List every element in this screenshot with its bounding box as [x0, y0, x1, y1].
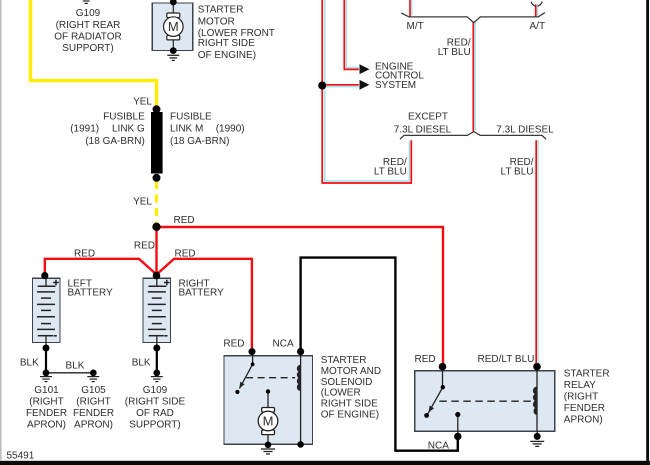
svg-text:G109: G109	[143, 385, 168, 396]
svg-text:APRON): APRON)	[74, 420, 113, 431]
svg-text:OF RADIATOR: OF RADIATOR	[54, 31, 121, 42]
svg-text:M: M	[263, 414, 274, 429]
svg-text:BATTERY: BATTERY	[68, 288, 114, 299]
svg-text:RED: RED	[74, 249, 95, 260]
svg-text:STARTER: STARTER	[564, 369, 610, 380]
svg-text:BLK: BLK	[66, 360, 85, 371]
svg-text:FUSIBLE: FUSIBLE	[103, 112, 145, 123]
svg-text:(RIGHT: (RIGHT	[564, 392, 598, 403]
svg-text:OF RAD: OF RAD	[136, 408, 174, 419]
svg-text:(1990): (1990)	[216, 124, 245, 135]
svg-text:SUPPORT): SUPPORT)	[129, 420, 181, 431]
svg-text:BLK: BLK	[20, 357, 39, 368]
svg-text:7.3L DIESEL: 7.3L DIESEL	[496, 124, 554, 135]
svg-text:MOTOR: MOTOR	[198, 16, 235, 27]
svg-text:FENDER: FENDER	[73, 408, 114, 419]
svg-text:M: M	[168, 19, 179, 34]
svg-text:SYSTEM: SYSTEM	[375, 80, 416, 91]
svg-text:RED/LT BLU: RED/LT BLU	[478, 354, 535, 365]
svg-text:M/T: M/T	[407, 21, 424, 32]
svg-text:LINK G: LINK G	[112, 124, 145, 135]
svg-text:(RIGHT: (RIGHT	[76, 397, 110, 408]
svg-text:LINK M: LINK M	[170, 124, 203, 135]
svg-text:APRON): APRON)	[564, 415, 603, 426]
svg-text:NCA: NCA	[428, 440, 449, 451]
svg-text:(1991): (1991)	[70, 124, 99, 135]
svg-text:RED: RED	[415, 354, 436, 365]
svg-text:FENDER: FENDER	[564, 403, 605, 414]
svg-text:RED: RED	[174, 215, 195, 226]
svg-text:OF ENGINE): OF ENGINE)	[198, 50, 256, 61]
svg-text:G109: G109	[76, 8, 101, 19]
svg-text:NCA: NCA	[273, 339, 294, 350]
svg-text:LT BLU: LT BLU	[374, 167, 407, 178]
svg-text:(RIGHT SIDE: (RIGHT SIDE	[125, 397, 186, 408]
svg-text:7.3L DIESEL: 7.3L DIESEL	[394, 124, 452, 135]
svg-text:(RIGHT REAR: (RIGHT REAR	[56, 20, 121, 31]
svg-text:FUSIBLE: FUSIBLE	[170, 112, 212, 123]
svg-text:SUPPORT): SUPPORT)	[62, 43, 114, 54]
svg-text:SOLENOID: SOLENOID	[321, 377, 373, 388]
svg-text:A/T: A/T	[530, 21, 546, 32]
svg-text:YEL: YEL	[133, 197, 152, 208]
svg-text:MOTOR AND: MOTOR AND	[321, 366, 381, 377]
svg-text:STARTER: STARTER	[198, 5, 244, 16]
svg-text:BLK: BLK	[132, 357, 151, 368]
svg-text:OF ENGINE): OF ENGINE)	[321, 410, 379, 421]
svg-text:(LOWER: (LOWER	[321, 388, 361, 399]
svg-text:RED: RED	[175, 249, 196, 260]
svg-text:G101: G101	[34, 385, 59, 396]
svg-text:LT BLU: LT BLU	[438, 47, 471, 58]
svg-text:RELAY: RELAY	[564, 380, 596, 391]
svg-text:RED: RED	[223, 339, 244, 350]
svg-text:LT BLU: LT BLU	[501, 167, 534, 178]
svg-text:FENDER: FENDER	[26, 408, 67, 419]
svg-text:(RIGHT: (RIGHT	[29, 397, 63, 408]
svg-text:APRON): APRON)	[27, 420, 66, 431]
svg-text:BATTERY: BATTERY	[179, 288, 225, 299]
svg-text:STARTER: STARTER	[321, 355, 367, 366]
svg-text:RIGHT SIDE: RIGHT SIDE	[321, 399, 378, 410]
svg-text:YEL: YEL	[133, 97, 152, 108]
svg-text:RED: RED	[134, 241, 155, 252]
svg-text:RIGHT SIDE: RIGHT SIDE	[198, 38, 255, 49]
svg-text:(18 GA-BRN): (18 GA-BRN)	[85, 136, 144, 147]
svg-text:G105: G105	[81, 385, 106, 396]
svg-text:(18 GA-BRN): (18 GA-BRN)	[170, 136, 229, 147]
svg-text:EXCEPT: EXCEPT	[408, 112, 448, 123]
svg-text:55491: 55491	[7, 450, 35, 461]
